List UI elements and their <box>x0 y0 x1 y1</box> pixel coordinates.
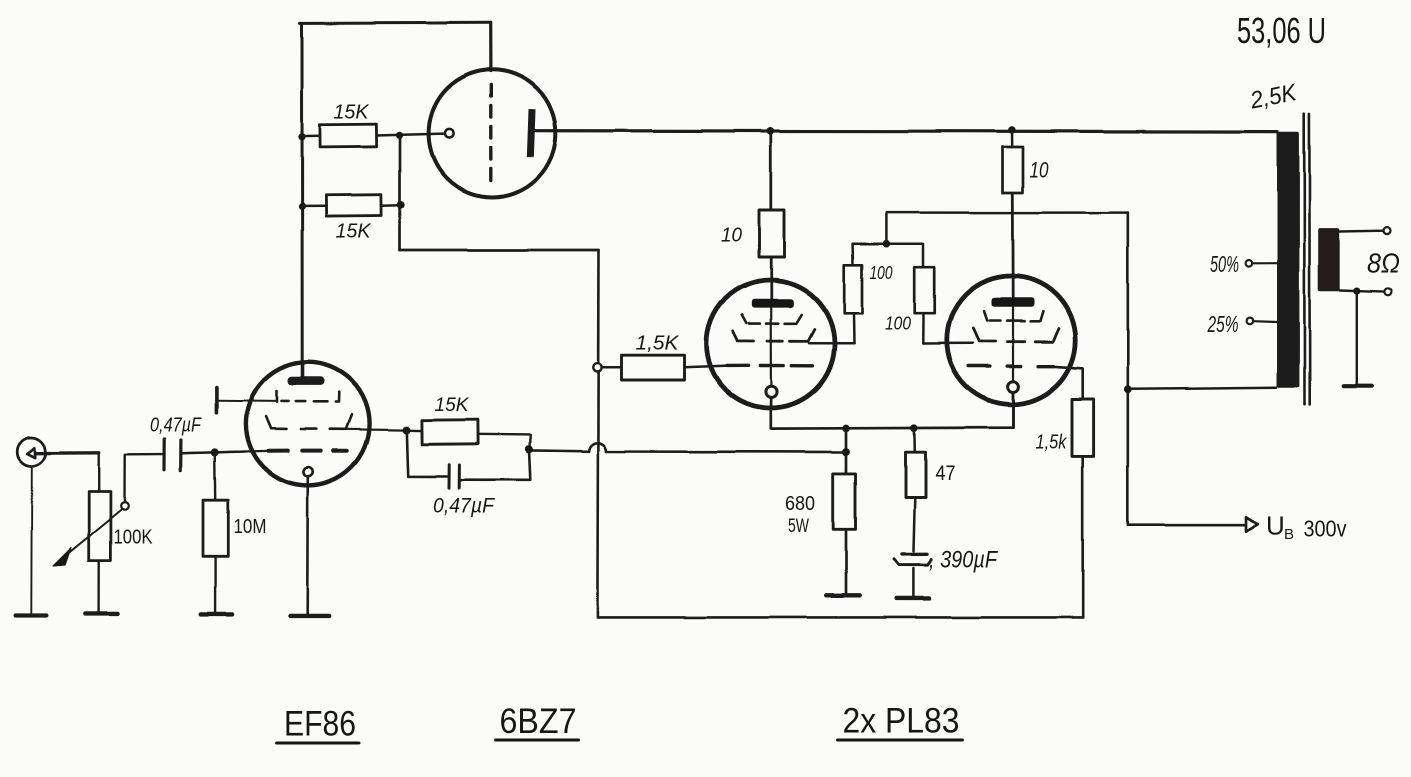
wire: 25% tap lead <box>1254 320 1277 323</box>
potentiometer arrow head <box>53 548 71 566</box>
wire: bottom drive rail <box>597 616 1082 619</box>
svg-text:2x PL83: 2x PL83 <box>843 702 960 741</box>
svg-text:8Ω: 8Ω <box>1367 248 1400 279</box>
wire: 15K R1 left lead <box>302 135 320 138</box>
wire: C3 bottom lead <box>912 569 915 598</box>
wire: pot top lead <box>97 453 99 492</box>
EF86 cathode pin circle <box>304 467 313 476</box>
wire: top coupling wire to 6BZ7 grid <box>300 21 490 25</box>
resistor R11 680 5W <box>833 473 855 528</box>
wire: R7 10ohm upper lead <box>769 131 772 210</box>
UB output arrow head <box>1246 517 1258 531</box>
ground: transformer secondary <box>1343 384 1372 388</box>
vacuum tube 6BZ7 V2 envelope <box>429 70 556 197</box>
wire: PL83 no.1 screen to R8 100 <box>809 342 854 345</box>
wire: B+ rail from 6BZ7 anode to transformer <box>535 129 1278 133</box>
wire: pot bottom lead <box>97 561 99 612</box>
resistor R6 1,5K (grid stopper PL83 no.1) <box>622 355 685 380</box>
vacuum tube PL83 V3 envelope <box>707 280 835 408</box>
wire: feedback run from 15K R5 to cathode node with hump <box>529 443 846 452</box>
transformer T1 primary winding bar 2,5K <box>1277 132 1299 387</box>
wire: screen node horizontal <box>853 243 923 246</box>
wire: EF86 cathode to ground <box>306 477 309 615</box>
svg-text:10: 10 <box>721 224 743 247</box>
ground: potentiometer <box>85 611 117 615</box>
PL83 V4 heater/cathode centre line <box>1012 308 1014 382</box>
svg-text:47: 47 <box>936 462 956 485</box>
wire: transformer primary bottom return <box>1128 387 1277 389</box>
svg-text:25%: 25% <box>1207 311 1239 337</box>
wire: 47 R12 bottom lead to C3 <box>914 497 915 552</box>
resistor R4 10M body <box>203 500 228 556</box>
svg-text:1,5K: 1,5K <box>636 332 680 355</box>
node: R5 right node dot <box>525 445 533 453</box>
node: cathode rail dot at 47 <box>911 424 919 432</box>
capacitor C2 plates <box>449 465 459 489</box>
wire: PL83 no.2 grid to 1,5K R13 <box>1052 366 1083 399</box>
underline: EF86 <box>277 742 359 745</box>
svg-text:5W: 5W <box>788 516 809 537</box>
resistor R13 1,5K (grid stopper PL83 no.2) <box>1072 399 1094 456</box>
input jack J1 <box>17 438 46 467</box>
node: R5 left node dot <box>403 426 411 434</box>
EF86 anode plate bar <box>288 377 325 386</box>
wire: secondary bottom lead <box>1340 290 1385 292</box>
svg-text:10M: 10M <box>234 515 267 538</box>
capacitor C1 0,47uF plates <box>164 440 181 471</box>
wire: R4 top lead <box>213 452 216 500</box>
wire: R8 100 bottom lead vertical <box>852 314 855 344</box>
wire: 6BZ7 grid drop <box>489 23 492 71</box>
resistor R8 100 <box>844 265 862 313</box>
terminal: secondary bottom circle <box>1384 288 1391 295</box>
terminal: 50% tap circle <box>1246 260 1253 267</box>
wire: jack sleeve to ground <box>30 466 33 614</box>
EF86 g2 screen row (dashed with flares) <box>266 415 352 430</box>
ground: C3 390uF <box>897 596 930 600</box>
terminal: 25% tap circle <box>1247 318 1254 325</box>
wire: 1,5K R6 left lead <box>601 366 622 369</box>
resistor R1 15K (upper) <box>320 124 377 147</box>
wire: R5 right lead <box>478 434 530 449</box>
wire: 15K R1 right lead to 6BZ7 cathode pin <box>377 134 445 136</box>
ground: EF86 cathode <box>290 614 329 618</box>
svg-text:15K: 15K <box>336 220 372 243</box>
svg-text:U: U <box>1266 511 1285 541</box>
EF86 g3 terminal bar <box>215 388 219 413</box>
capacitor C3 390uF bottom cup plate <box>894 559 932 565</box>
resistor R9 100 <box>914 267 934 313</box>
wire: R5 left lead <box>407 429 423 432</box>
PL83 V3 g2 screen row with flares <box>733 330 814 342</box>
node: junction dot right of R1 <box>396 132 403 139</box>
node: B+ rail dot above PL83 no.2 <box>1008 126 1016 134</box>
resistor R12 47 <box>906 452 926 497</box>
svg-text:53,06 U: 53,06 U <box>1237 10 1326 51</box>
terminal: secondary top circle <box>1384 227 1391 234</box>
svg-text:300v: 300v <box>1304 516 1347 542</box>
capacitor C2 0,47uF parallel loop left side <box>407 430 448 476</box>
wire: PL83 V3 cathode pin to rail <box>770 398 773 409</box>
wire: R10 10ohm upper lead <box>1011 130 1014 147</box>
vacuum tube PL83 V4 envelope <box>947 276 1075 404</box>
node: UB column dot at transformer return <box>1124 385 1132 393</box>
node: feedback node dot <box>842 448 850 456</box>
potentiometer wiper pin circle <box>121 503 129 511</box>
PL83 V4 anode plate bar <box>992 298 1035 307</box>
transformer T1 secondary winding bar <box>1318 228 1340 291</box>
svg-text:680: 680 <box>785 492 815 515</box>
svg-text:10: 10 <box>1030 158 1050 183</box>
wire: vertical joining R1 and R2 right ends <box>399 135 402 250</box>
wire: 680 R11 bottom lead <box>845 529 848 594</box>
EF86 g3 lead to left terminal bar <box>217 400 277 403</box>
EF86 g1 lead exiting left <box>181 451 269 453</box>
wire: 15K R2 left lead <box>302 205 326 208</box>
svg-text:0,47µF: 0,47µF <box>433 495 495 518</box>
wire: 50% tap lead <box>1252 262 1277 264</box>
resistor R7 10 (PL83 no.1 anode) <box>759 210 784 257</box>
svg-text:6BZ7: 6BZ7 <box>500 702 577 741</box>
svg-text:100: 100 <box>885 314 911 334</box>
svg-text:50%: 50% <box>1210 251 1239 277</box>
underline: 2x PL83 <box>838 739 963 742</box>
EF86 g3 suppressor row (dashed) <box>277 392 339 403</box>
wire: PL83 V4 cathode pin down <box>1012 392 1015 428</box>
wire: secondary to ground <box>1356 291 1358 384</box>
svg-text:100: 100 <box>870 263 893 283</box>
resistor R10 10 (PL83 no.2 anode) <box>1003 147 1024 193</box>
node: B+ rail dot above PL83 no.1 <box>767 127 775 135</box>
6BZ7 anode bar <box>527 109 536 157</box>
capacitor C3 390uF top plate <box>902 553 928 557</box>
wire: 1,5K R13 bottom lead to bottom rail <box>1081 456 1084 617</box>
wire: UB feed horizontal <box>1128 524 1244 527</box>
node: screen node dot <box>883 240 891 248</box>
wire: R9 100 bottom lead <box>922 313 925 343</box>
6BZ7 grid dashed line <box>489 85 492 180</box>
EF86 anode top lead inside envelope <box>301 363 304 377</box>
wire: jack to pot top <box>36 451 99 455</box>
PL83 V3 heater/cathode centre line <box>770 308 772 387</box>
wire: R9 100 top lead vertical <box>922 244 925 267</box>
resistor R5 15K (EF86 screen feed) <box>422 420 478 445</box>
wire: 1,5K R6 right lead to PL83 no.1 grid <box>685 366 729 368</box>
wire: UB column vertical <box>1127 213 1130 526</box>
wire: 47 R12 top lead <box>913 428 916 452</box>
PL83 V4 g3 row <box>984 311 1043 321</box>
wire: secondary top lead <box>1340 229 1384 232</box>
svg-text:B: B <box>1284 526 1294 543</box>
svg-text:, 390µF: , 390µF <box>929 547 998 574</box>
wire: R8 100 top lead <box>851 245 854 266</box>
ground: input jack <box>15 614 47 618</box>
node: secondary bottom dot <box>1353 287 1360 294</box>
node B: junction dot left rail lower <box>298 203 305 210</box>
6BZ7 cathode pin circle <box>445 129 454 138</box>
PL83 V3 anode plate bar <box>752 299 794 308</box>
wire: 15K R2 right lead <box>382 204 401 207</box>
PL83 V3 g1 row (heavy dashes) <box>727 364 813 368</box>
input jack centre pin triangle <box>27 448 35 458</box>
PL83 V3 cathode pin circle <box>766 386 777 397</box>
node: cathode rail dot at 680 <box>842 425 850 433</box>
wire: PL83 no.2 screen to R9 <box>923 342 973 345</box>
ground: R11 680 <box>826 593 860 597</box>
node: junction dot right of R2 <box>397 201 405 209</box>
PL83 V4 g2 screen row with flares <box>973 329 1058 342</box>
wire: PL83 cathode rail <box>771 392 1013 428</box>
svg-text:EF86: EF86 <box>284 705 356 744</box>
wire: screen feed horizontal from UB column <box>886 211 1127 214</box>
wire: drive column vertical down to bottom rail <box>597 250 598 617</box>
resistor R3 100K potentiometer body <box>89 492 111 561</box>
svg-text:1,5k: 1,5k <box>1036 432 1068 454</box>
node: tap circle on drive column for 1,5K R6 <box>593 363 601 371</box>
wire: R10 10ohm lower lead to PL83 no.2 anode <box>1011 193 1014 298</box>
underline: 6BZ7 <box>496 739 579 742</box>
transformer T1 core lines <box>1304 114 1310 404</box>
svg-text:0,47µF: 0,47µF <box>150 415 202 437</box>
PL83 V3 g3 row <box>742 315 802 324</box>
resistor R2 15K (lower) <box>326 195 382 217</box>
ground: R4 10M <box>201 612 232 616</box>
capacitor C2 loop right side <box>460 450 530 481</box>
wire: C1 to grid node <box>181 452 245 454</box>
wire: pot wiper riser to coupling cap <box>125 455 165 503</box>
wire: EF86 anode to top rail vertical <box>301 23 304 377</box>
svg-text:100K: 100K <box>114 527 154 549</box>
node: EF86 grid node dot <box>211 448 219 456</box>
wire: 680 R11 top lead <box>845 428 848 473</box>
wire: horizontal run to drive column <box>400 249 599 252</box>
EF86 g1 control-grid row (heavy dashes) <box>269 449 347 453</box>
op-amp: none / vacuum tube EF86 V1 envelope <box>246 362 369 485</box>
svg-text:15K: 15K <box>334 101 370 124</box>
PL83 V4 cathode pin circle <box>1008 381 1019 392</box>
potentiometer wiper arrow <box>62 510 122 559</box>
EF86 g2 lead exiting right <box>347 428 407 431</box>
PL83 V4 g1 row (heavy dashes) <box>969 364 1054 368</box>
svg-text:15K: 15K <box>435 394 470 416</box>
wire: R4 bottom lead <box>214 556 216 612</box>
wire: R7 10ohm lower lead to PL83 no.1 anode <box>770 257 773 300</box>
wire: screen node riser <box>885 213 888 245</box>
node A: junction dot left rail upper <box>298 134 305 141</box>
